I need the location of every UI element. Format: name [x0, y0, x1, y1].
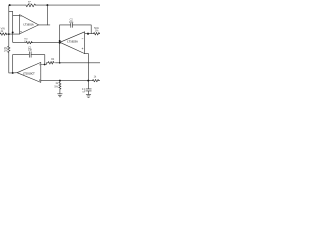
wire A1 output [39, 24, 50, 26]
op-amp U2 [60, 32, 85, 54]
wire A3 output lead [13, 72, 17, 74]
ground (under R5) [58, 94, 63, 97]
ground (under C3) [86, 94, 91, 97]
svg-text:33p: 33p [28, 49, 33, 52]
svg-text:uF: uF [82, 91, 85, 94]
wire divider to A2 [13, 42, 60, 43]
node bottom rail R junction [59, 80, 61, 82]
svg-text:1k: 1k [94, 76, 97, 79]
node A1 +in crossing [12, 31, 14, 33]
resistor R3 (divider) [26, 41, 32, 43]
resistor R5 (to ground) [59, 81, 61, 94]
svg-text:5%: 5% [54, 85, 58, 88]
op-amp U3 input marks [39, 65, 40, 81]
op-amp U1 [20, 15, 39, 34]
op-amp U1 input marks [20, 16, 21, 32]
resistor RO (output) [94, 32, 100, 35]
wire output line [85, 33, 100, 35]
wire top feedback rail [9, 4, 100, 6]
resistor R6 (bottom rail right) [93, 79, 99, 82]
node A2 input blob [59, 40, 61, 42]
wire A1 inverting input stub [13, 14, 20, 16]
svg-text:1%: 1% [24, 41, 27, 43]
svg-text:15p: 15p [69, 21, 74, 24]
wire bottom rail [41, 63, 100, 65]
wire C2 left lead [60, 24, 71, 26]
node A2 bottom junction [59, 62, 61, 64]
wire C1 leads [13, 55, 45, 65]
op-amp U2 input marks [82, 39, 83, 49]
node A3 output junction [12, 72, 14, 74]
node VIN junction [8, 33, 10, 35]
wire A2 node vertical [59, 25, 61, 63]
resistor R2 (top rail) [26, 4, 35, 7]
resistor R4 (bottom rail) [48, 62, 54, 65]
wire VIN input [7, 33, 20, 35]
svg-text:LT1010CT: LT1010CT [23, 73, 35, 76]
wire C2 right lead [73, 25, 92, 34]
node top-mid junction [46, 4, 48, 6]
wire bottom ground rail [41, 80, 100, 82]
resistor R1 (left vertical) [8, 46, 10, 53]
wire left vertical net [9, 5, 13, 73]
svg-text:LT1001A: LT1001A [23, 24, 33, 27]
svg-text:1%: 1% [95, 30, 99, 33]
svg-text:LT1022A: LT1022A [67, 39, 78, 43]
capacitor C3 (to ground) [86, 81, 91, 95]
capacitor C1 (bottom left) [29, 52, 31, 58]
capacitor C2 (top, across A2) [71, 23, 73, 28]
wire A3 output vertical [12, 55, 14, 73]
node bottom-rail cap junction [44, 64, 46, 66]
wire jog to A1 inverting input [9, 11, 13, 41]
node top-left junction [9, 4, 11, 6]
resistor RIN (input) [0, 33, 7, 36]
wire A2 lower feedback path [85, 54, 89, 81]
wire rail-to-output vertical [46, 5, 48, 25]
node bottom rail C junction [87, 80, 89, 82]
op-amp U3 (points left) [17, 62, 41, 82]
node output top [87, 33, 89, 35]
